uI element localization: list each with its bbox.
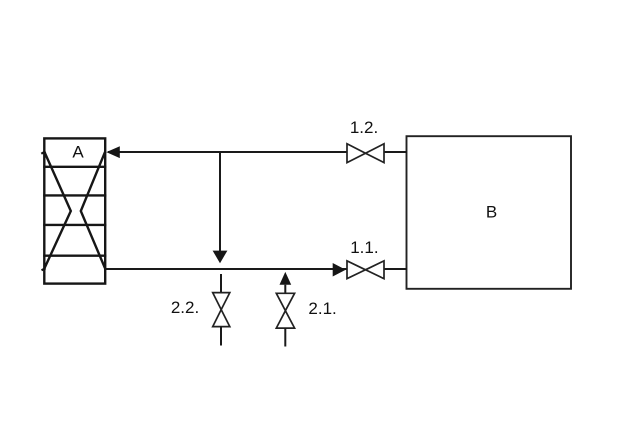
svg-text:1.1.: 1.1. <box>350 238 378 257</box>
svg-text:2.1.: 2.1. <box>308 299 336 318</box>
top pipe: B to valve 1.2 <box>384 151 407 153</box>
valve 2.2 bottom triangle <box>213 310 230 327</box>
heat exchanger A bottom-left stub tick <box>42 268 46 270</box>
bottom pipe: A to valve 1.1 <box>105 268 347 270</box>
svg-text:B: B <box>486 203 497 222</box>
heat exchanger A top-left stub tick <box>41 151 45 153</box>
top pipe: valve 1.2 to A <box>108 151 347 153</box>
valve 2.1 top triangle <box>276 293 294 310</box>
bottom pipe: valve 1.1 to B <box>384 268 407 270</box>
vessel B outline <box>407 136 572 289</box>
drain branch lower stub (valve 2.2) <box>220 327 222 346</box>
heat exchanger A left hourglass chevron <box>44 152 71 269</box>
heat exchanger A divider 1 <box>43 166 106 168</box>
svg-text:1.2.: 1.2. <box>350 118 378 137</box>
valve 1.2 right triangle <box>366 144 385 163</box>
svg-text:2.2.: 2.2. <box>171 298 199 317</box>
feed branch upper stub (valve 2.1) <box>284 285 286 294</box>
heat exchanger A divider 2 <box>43 194 106 196</box>
valve 1.1 left triangle <box>347 261 366 279</box>
valve 2.2 top triangle <box>213 293 230 310</box>
valve 1.1 right triangle <box>366 261 385 279</box>
arrowhead into A (points left) <box>106 146 120 158</box>
rightward arrowhead before valve 1.1 <box>333 263 346 277</box>
svg-text:A: A <box>72 143 84 162</box>
vertical drop pipe from top pipe <box>219 152 221 252</box>
heat exchanger A outline <box>44 138 105 283</box>
upward arrowhead into bottom pipe (feed branch) <box>280 272 292 285</box>
drain branch upper stub (valve 2.2) <box>220 274 222 293</box>
heat exchanger A right hourglass chevron <box>81 152 105 269</box>
valve 1.2 left triangle <box>347 144 366 163</box>
heat exchanger A divider 4 <box>43 254 106 256</box>
valve 2.1 bottom triangle <box>276 311 294 328</box>
heat exchanger A divider 3 <box>43 224 106 226</box>
downward arrowhead above bottom pipe <box>213 251 228 264</box>
feed branch lower stub (valve 2.1) <box>284 328 286 346</box>
